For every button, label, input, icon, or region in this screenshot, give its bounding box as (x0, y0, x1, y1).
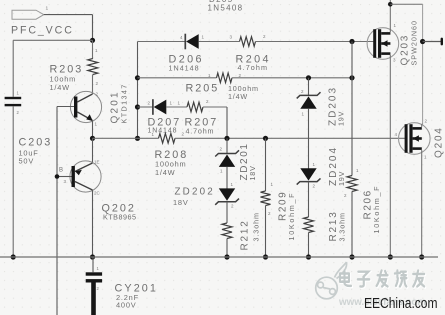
wire Q203 gate node down to R206 (351, 42, 353, 176)
svg-text:18V: 18V (248, 165, 257, 180)
wire right rail vertical (drain bus) (422, 4, 424, 124)
svg-text:3.3ohm: 3.3ohm (338, 212, 347, 241)
connector PFC_VCC port symbol (12, 10, 44, 19)
wire drain link top rail (390, 3, 422, 5)
junction ZD203 top (306, 75, 311, 80)
wire gate net to R209 (265, 138, 267, 191)
resistor R208 (159, 134, 176, 144)
wire Q201 base (57, 106, 74, 108)
wire R212 to bus (226, 239, 228, 258)
svg-text:R205: R205 (186, 83, 220, 95)
junction R212 / bus (224, 254, 229, 259)
svg-text:EEChina.com: EEChina.com (364, 296, 438, 312)
transistor Q204 MOSFET (399, 123, 431, 155)
svg-text:3.3ohm: 3.3ohm (252, 212, 261, 241)
svg-text:1/4W: 1/4W (50, 83, 70, 92)
wire R213 to bus (308, 233, 310, 258)
junction node at R203 top (90, 38, 95, 43)
junction base node (55, 174, 60, 179)
junction R206 column top (349, 75, 354, 80)
wire stub with terminator (423, 41, 441, 43)
wire R204 to Q203 gate (256, 41, 374, 43)
wire from PFC_VCC to node (44, 14, 93, 16)
wire Q203 drain up (389, 4, 391, 32)
junction R209 column (263, 136, 268, 141)
wire ZD203 to ZD204 (308, 109, 310, 169)
junction Q203 drain top (388, 2, 393, 7)
wire to D207 (138, 106, 153, 108)
wire drain node to top edge (389, 0, 391, 4)
svg-text:4.7ohm: 4.7ohm (238, 63, 269, 72)
svg-text:Q204: Q204 (434, 126, 445, 158)
junction R213 / bus (306, 254, 311, 259)
resistor R206 (347, 176, 357, 192)
zener diode ZD203 (297, 92, 321, 98)
svg-text:SPW20N60: SPW20N60 (410, 20, 419, 66)
junction Q203 gate / R206 column (349, 39, 354, 44)
wire R206 to bus (351, 192, 353, 258)
wire to ZD201 (226, 138, 228, 154)
wire R207 to ZD201 column (203, 106, 227, 108)
junction R209 / bus (263, 254, 268, 259)
wire Q204 drain to right rail (421, 124, 423, 127)
wire D206 to R204 (199, 41, 240, 43)
zener diode ZD201 (215, 150, 239, 156)
zener diode ZD204 (297, 178, 321, 184)
wire ZD201 to ZD202 (226, 167, 228, 189)
junction D207 line (135, 104, 140, 109)
svg-text:400V: 400V (116, 300, 136, 309)
svg-text:18V: 18V (173, 198, 189, 207)
junction R208 line (135, 136, 140, 141)
resistor R205 (217, 73, 233, 83)
svg-text:50V: 50V (19, 157, 35, 166)
capacitor C203 (5, 97, 22, 99)
resistor R209 (261, 191, 271, 206)
junction Q204 source / bus (419, 254, 424, 259)
svg-text:4.7ohm: 4.7ohm (186, 127, 215, 136)
svg-text:1: 1 (46, 6, 49, 12)
wire D207 to R207 (166, 106, 187, 108)
resistor R212 (222, 223, 232, 239)
resistor R204 (240, 37, 256, 47)
svg-text:C203: C203 (19, 137, 53, 149)
wire R203 to Q201 collector (92, 75, 94, 95)
wire Q202 collector to bus (92, 190, 94, 257)
wire Q201 emitter down (92, 121, 94, 139)
wire bottom bus rail (0, 256, 438, 258)
wire base node vertical down to bottom edge (56, 107, 58, 315)
wire Q202 emitter up (92, 138, 94, 163)
svg-text:1E: 1E (94, 160, 100, 165)
junction ZD201 column (224, 136, 229, 141)
wire left to C203 branch (13, 39, 92, 41)
diode D207 (152, 99, 154, 115)
junction R206 / bus (349, 254, 354, 259)
transistor Q201 NPN (70, 91, 101, 122)
svg-text:10Kohm_F: 10Kohm_F (287, 192, 296, 241)
wire C203 branch vertical upper (12, 40, 14, 97)
svg-text:KTB8965: KTB8965 (103, 213, 136, 222)
wire C203 to bottom bus (12, 106, 14, 257)
watermark logo (elecfans) (316, 262, 347, 299)
svg-text:B: B (59, 168, 63, 174)
wire Q202 base (57, 176, 72, 178)
zener diode ZD202 (215, 199, 239, 205)
wire vertical node column (137, 42, 139, 139)
transistor Q203 MOSFET (367, 28, 399, 60)
junction C203 branch / bottom bus (11, 254, 16, 259)
svg-text:1N5408: 1N5408 (208, 3, 244, 12)
svg-text:ZD202: ZD202 (175, 187, 215, 198)
svg-text:1/4W: 1/4W (155, 168, 175, 177)
watermark text 电子发烧友 (stylized) (341, 271, 425, 287)
wire R205 to Q203 gate column (232, 77, 352, 79)
resistor R213 (304, 217, 314, 233)
wire down to junction (92, 15, 94, 41)
svg-text:R212: R212 (240, 219, 251, 250)
wire Q203 source down to bus (389, 55, 391, 257)
svg-text:KTD1347: KTD1347 (120, 83, 129, 123)
wire ZD202 to R212 (226, 202, 228, 223)
wire to R205 (138, 77, 217, 79)
wire ZD204 to R213 (308, 182, 310, 217)
svg-text:PFC_VCC: PFC_VCC (11, 25, 74, 37)
svg-text:19V: 19V (337, 171, 346, 186)
svg-text:10Kohm_F: 10Kohm_F (372, 185, 381, 234)
svg-text:2C: 2C (94, 191, 101, 196)
wire R209 to bus (265, 206, 267, 258)
junction Q203 source / bus (388, 254, 393, 259)
junction Q201 emitter / Q202 emitter / gate net (90, 136, 95, 141)
wire to ZD203 (308, 78, 310, 96)
wire junction to R203 (92, 40, 94, 58)
junction right rail / stub (420, 39, 425, 44)
svg-text:19V: 19V (337, 111, 346, 126)
svg-text:1/4W: 1/4W (228, 92, 248, 101)
junction Q202 collector / bus / CY201 (90, 254, 95, 259)
resistor R207 (187, 102, 203, 112)
wire emitter node to R208 (93, 137, 159, 139)
wire down to gate net line (226, 107, 228, 138)
wire Q204 source down to bus (421, 150, 423, 257)
junction R205 line (135, 75, 140, 80)
capacitor CY201 (92, 257, 94, 272)
diode D206 (184, 34, 186, 50)
wire R208 to Q204 gate (175, 137, 405, 139)
transistor Q202 PNP (70, 161, 101, 192)
svg-text:1N4148: 1N4148 (169, 64, 200, 73)
wire to D206 (138, 41, 186, 43)
resistor R203 (88, 59, 98, 75)
